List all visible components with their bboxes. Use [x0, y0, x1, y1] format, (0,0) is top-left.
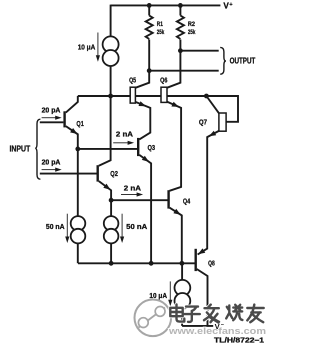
- svg-text:Q2: Q2: [110, 169, 118, 178]
- svg-text:50 nA: 50 nA: [46, 222, 65, 231]
- svg-text:Q8: Q8: [208, 258, 215, 267]
- svg-text:20 pA: 20 pA: [42, 107, 61, 114]
- svg-text:Q4: Q4: [183, 196, 191, 205]
- svg-text:R2: R2: [188, 21, 195, 28]
- svg-text:Q5: Q5: [129, 76, 136, 85]
- svg-text:2 nA: 2 nA: [116, 131, 133, 138]
- svg-text:+: +: [229, 2, 232, 8]
- svg-text:Q6: Q6: [160, 76, 167, 85]
- svg-text:20 pA: 20 pA: [42, 159, 61, 166]
- svg-text:2 nA: 2 nA: [124, 186, 141, 193]
- svg-text:INPUT: INPUT: [10, 144, 31, 154]
- svg-text:Q3: Q3: [148, 143, 156, 152]
- svg-text:10 μA: 10 μA: [78, 44, 96, 52]
- svg-text:25k: 25k: [188, 29, 196, 36]
- svg-text:R1: R1: [157, 21, 163, 28]
- svg-text:TL/H/8722–1: TL/H/8722–1: [214, 337, 264, 344]
- svg-text:50 nA: 50 nA: [126, 222, 148, 231]
- svg-text:OUTPUT: OUTPUT: [230, 55, 256, 65]
- svg-text:25k: 25k: [157, 29, 165, 36]
- svg-text:Q1: Q1: [76, 119, 83, 128]
- svg-text:Q7: Q7: [199, 118, 207, 127]
